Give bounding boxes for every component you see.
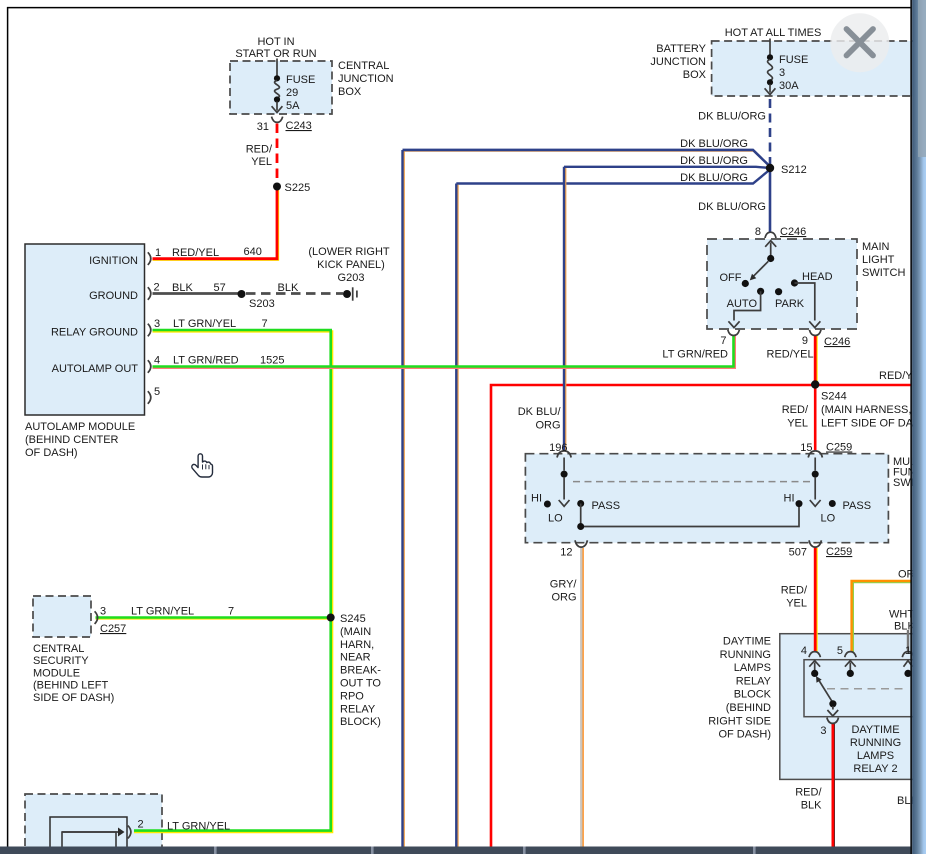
svg-text:3: 3 xyxy=(820,725,826,737)
svg-text:3: 3 xyxy=(154,318,160,330)
svg-text:C243: C243 xyxy=(286,120,312,132)
svg-text:RED/: RED/ xyxy=(781,585,808,597)
fuse 29 (central junction box) xyxy=(272,75,283,112)
wire BLK dashed from S203 to G203 xyxy=(246,292,343,295)
main light switch pin 9 connector arc (C246) xyxy=(809,330,821,336)
main light switch internals xyxy=(728,241,820,328)
multifunction switch pin 196 connector arc (C259) xyxy=(557,451,571,458)
svg-text:4: 4 xyxy=(154,355,160,367)
svg-text:PASS: PASS xyxy=(592,500,621,512)
svg-text:KICK PANEL): KICK PANEL) xyxy=(317,259,385,271)
wire DK BLU/ORG horizontal 2 xyxy=(564,167,770,451)
svg-text:AUTOLAMP MODULE: AUTOLAMP MODULE xyxy=(25,421,135,433)
svg-text:5A: 5A xyxy=(286,100,300,112)
wire GRY/ORG from multifunction switch pin 12 xyxy=(580,547,582,847)
svg-text:(MAIN: (MAIN xyxy=(340,626,371,638)
svg-text:4: 4 xyxy=(801,645,807,657)
svg-text:BATTERY: BATTERY xyxy=(656,43,706,55)
svg-text:AUTOLAMP OUT: AUTOLAMP OUT xyxy=(52,363,139,375)
svg-text:DK BLU/ORG: DK BLU/ORG xyxy=(698,201,766,213)
bottom toolbar xyxy=(0,847,912,854)
svg-text:ORG: ORG xyxy=(535,420,560,432)
svg-text:GRY/: GRY/ xyxy=(550,579,578,591)
svg-text:PASS: PASS xyxy=(843,500,872,512)
svg-text:RED/YEL: RED/YEL xyxy=(767,349,814,361)
central junction box (fuse box, dashed) xyxy=(230,61,332,114)
svg-text:507: 507 xyxy=(789,547,807,559)
svg-text:CENTRAL: CENTRAL xyxy=(33,643,84,655)
svg-text:MODULE: MODULE xyxy=(33,667,80,679)
daytime running lamps relay 2 (inner box) xyxy=(804,660,920,717)
connector C243 socket arc (pin 31) xyxy=(272,117,283,123)
svg-text:196: 196 xyxy=(549,442,567,454)
svg-text:RED/: RED/ xyxy=(795,787,822,799)
wire LT GRN/YEL branch from central security module pin 3 xyxy=(96,616,331,619)
wire DK BLU/ORG vertical 3 (x=456.3) tracer xyxy=(457,185,459,847)
svg-text:1: 1 xyxy=(155,247,161,259)
scrollbar track xyxy=(912,0,926,854)
svg-text:7: 7 xyxy=(228,606,234,618)
splice S212 xyxy=(766,164,774,172)
svg-text:OF DASH): OF DASH) xyxy=(718,729,771,741)
svg-text:OFF: OFF xyxy=(720,272,742,284)
wire RED/YEL from S225 to autolamp module pin 1 xyxy=(153,187,278,259)
fuse 3 (battery junction box) xyxy=(765,54,776,94)
wire RED/YEL from pin 507 to relay pin 4 (tracer) xyxy=(815,548,817,652)
svg-text:DK BLU/ORG: DK BLU/ORG xyxy=(680,172,748,184)
svg-text:C257: C257 xyxy=(100,623,126,635)
svg-text:CENTRAL: CENTRAL xyxy=(338,60,389,72)
wire WHT/BLK stub into relay right pin xyxy=(907,630,909,652)
svg-text:NEAR: NEAR xyxy=(340,652,371,664)
svg-text:PARK: PARK xyxy=(775,298,805,310)
svg-text:OF DASH): OF DASH) xyxy=(25,447,78,459)
svg-text:(BEHIND: (BEHIND xyxy=(726,702,771,714)
relay pin 5 connector arc xyxy=(845,652,856,658)
frame border right xyxy=(910,0,912,854)
svg-text:RELAY: RELAY xyxy=(736,675,772,687)
svg-text:RPO: RPO xyxy=(340,690,364,702)
svg-text:RED/: RED/ xyxy=(246,144,273,156)
autolamp module box xyxy=(25,244,145,415)
bottom-left module box (dashed, cut off) xyxy=(25,794,162,854)
svg-text:(MAIN HARNESS,: (MAIN HARNESS, xyxy=(821,404,911,416)
multifunction switch box (dashed) xyxy=(525,454,888,543)
wire RED/YEL from S244 down to multifunction switch pin 15 xyxy=(814,385,817,451)
svg-text:IGNITION: IGNITION xyxy=(89,255,138,267)
svg-text:YEL: YEL xyxy=(786,598,807,610)
svg-text:3: 3 xyxy=(779,67,785,79)
wire DK BLU/ORG dashed from battery junction box fuse to S212 xyxy=(769,99,772,164)
frame border left xyxy=(7,7,9,847)
ground G203 xyxy=(343,287,357,300)
svg-text:BLOCK): BLOCK) xyxy=(340,716,381,728)
daytime running lamps relay 2 internals xyxy=(809,661,912,716)
wire lead into battery junction box xyxy=(769,39,771,56)
multifunction switch pin 15 connector arc (C259) xyxy=(808,451,822,458)
svg-text:LAMPS: LAMPS xyxy=(857,750,894,762)
wire LT GRN/YEL net: pin3 - S245 - bottom box pin 2 (tracer) xyxy=(134,331,332,832)
svg-text:LO: LO xyxy=(548,513,563,525)
svg-text:BLK: BLK xyxy=(172,282,193,294)
svg-text:DK BLU/ORG: DK BLU/ORG xyxy=(680,138,748,150)
svg-text:JUNCTION: JUNCTION xyxy=(650,56,706,68)
wire LT GRN/RED from autolamp out pin 4 to main light switch pin 7 (tracer) xyxy=(153,335,735,368)
wire DK BLU/ORG horizontal 2 (x=564 down to pin 196) tracer xyxy=(564,168,566,450)
svg-text:DAYTIME: DAYTIME xyxy=(723,636,771,648)
svg-text:7: 7 xyxy=(262,318,268,330)
svg-text:SECURITY: SECURITY xyxy=(33,655,89,667)
svg-text:C246: C246 xyxy=(824,336,850,348)
splice S245 xyxy=(327,614,335,622)
main light switch pin 8 connector arc (C246) xyxy=(765,232,776,238)
svg-text:RELAY 2: RELAY 2 xyxy=(853,763,897,775)
svg-text:C246: C246 xyxy=(780,226,806,238)
svg-text:HEAD: HEAD xyxy=(802,271,833,283)
svg-text:LEFT SIDE OF DASH): LEFT SIDE OF DASH) xyxy=(821,418,926,430)
svg-text:OUT TO: OUT TO xyxy=(340,678,381,690)
svg-text:31: 31 xyxy=(257,121,269,133)
autolamp module pin 2 socket xyxy=(148,287,151,300)
scrollbar thumb xyxy=(918,0,926,157)
svg-text:DK BLU/ORG: DK BLU/ORG xyxy=(698,111,766,123)
svg-text:BOX: BOX xyxy=(338,86,362,98)
wire LT GRN/YEL branch from central security module pin 3 (tracer) xyxy=(96,618,331,620)
wire DK BLU/ORG horizontal 3 xyxy=(456,170,770,848)
svg-text:8: 8 xyxy=(755,226,761,238)
svg-text:HOT AT ALL TIMES: HOT AT ALL TIMES xyxy=(725,27,822,39)
central security module box (dashed) xyxy=(33,596,91,637)
svg-text:(BEHIND CENTER: (BEHIND CENTER xyxy=(25,434,119,446)
svg-text:HI: HI xyxy=(531,493,542,505)
svg-text:LT GRN/YEL: LT GRN/YEL xyxy=(173,318,236,330)
svg-text:LT GRN/RED: LT GRN/RED xyxy=(662,349,728,361)
svg-text:BLK: BLK xyxy=(278,282,299,294)
svg-text:57: 57 xyxy=(214,282,226,294)
splice S244 xyxy=(811,380,819,388)
svg-text:GROUND: GROUND xyxy=(89,290,138,302)
wire DK BLU/ORG vertical 1 xyxy=(403,150,771,847)
svg-text:9: 9 xyxy=(802,335,808,347)
svg-text:LIGHT: LIGHT xyxy=(862,254,895,266)
wire RED/YEL from pin 507 to relay pin 4 xyxy=(814,547,817,652)
svg-text:RELAY: RELAY xyxy=(340,703,376,715)
svg-text:2: 2 xyxy=(154,282,160,294)
multifunction switch pin 12 connector arc xyxy=(575,540,587,547)
wire RED/YEL from main light switch pin 9 to S244 (tracer) xyxy=(815,335,817,384)
svg-text:S212: S212 xyxy=(781,164,807,176)
svg-text:S245: S245 xyxy=(340,613,366,625)
splice S203 xyxy=(238,290,246,298)
svg-text:LAMPS: LAMPS xyxy=(734,662,771,674)
relay internal dashed linkage xyxy=(827,688,908,690)
svg-text:S203: S203 xyxy=(249,298,275,310)
wire GRY/ORG from multifunction switch pin 12 (tracer) xyxy=(582,548,584,847)
wire BLK from autolamp module pin 2 to S203 xyxy=(153,292,240,295)
wire RED/BLK from relay pin 3 down xyxy=(832,724,835,847)
splice S225 xyxy=(273,183,281,191)
autolamp module pin 4 socket xyxy=(148,360,151,373)
bottom-left inner-inner rectangle xyxy=(62,832,116,854)
svg-text:ORG: ORG xyxy=(551,592,576,604)
svg-text:RUNNING: RUNNING xyxy=(720,649,771,661)
svg-text:7: 7 xyxy=(720,335,726,347)
svg-text:1525: 1525 xyxy=(260,355,284,367)
multifunction switch pin 507 connector arc (C259) xyxy=(809,540,821,547)
multifunction switch internals left xyxy=(544,458,803,531)
svg-text:DK BLU/: DK BLU/ xyxy=(518,406,562,418)
battery junction box (dashed, cut at right) xyxy=(712,41,915,96)
svg-text:LT GRN/YEL: LT GRN/YEL xyxy=(131,606,194,618)
wire lead into central junction box xyxy=(276,59,278,77)
svg-text:YEL: YEL xyxy=(251,156,272,168)
svg-text:START OR RUN: START OR RUN xyxy=(235,48,316,60)
svg-text:BREAK-: BREAK- xyxy=(340,665,381,677)
svg-text:29: 29 xyxy=(286,87,298,99)
svg-text:LT GRN/YEL: LT GRN/YEL xyxy=(167,821,230,833)
svg-text:S225: S225 xyxy=(285,182,311,194)
svg-text:FUSE: FUSE xyxy=(779,54,808,66)
svg-text:30A: 30A xyxy=(779,80,799,92)
autolamp module pin 1 socket xyxy=(148,252,151,265)
wire RED/BLK from relay pin 3 down (tracer) xyxy=(833,724,835,847)
svg-text:MAIN: MAIN xyxy=(862,241,890,253)
wire RED/YEL from main light switch pin 9 to S244 xyxy=(814,335,817,384)
wire RED/YEL from S225 to autolamp module pin 1 (tracer) xyxy=(153,190,279,260)
svg-text:5: 5 xyxy=(154,386,160,398)
main light switch box (dashed) xyxy=(707,239,857,329)
central security module pin 3 socket (C257) xyxy=(95,611,98,624)
autolamp module pin 3 socket xyxy=(148,324,151,337)
bottom-left inner rectangle xyxy=(50,817,127,854)
daytime running lamps relay block (outer box) xyxy=(780,634,918,780)
multifunction switch internal dashed linkage xyxy=(573,481,812,483)
svg-text:JUNCTION: JUNCTION xyxy=(338,73,394,85)
svg-text:3: 3 xyxy=(100,606,106,618)
svg-text:C259: C259 xyxy=(826,546,852,558)
svg-text:RED/YEL: RED/YEL xyxy=(172,247,219,259)
svg-text:5: 5 xyxy=(837,645,843,657)
main light switch pin 7 connector arc xyxy=(728,330,740,336)
svg-text:G203: G203 xyxy=(338,272,365,284)
svg-text:RUNNING: RUNNING xyxy=(850,737,901,749)
svg-text:RELAY GROUND: RELAY GROUND xyxy=(51,327,138,339)
svg-text:DK BLU/ORG: DK BLU/ORG xyxy=(680,155,748,167)
wire DK BLU/ORG from S212 to main light switch pin 8 xyxy=(769,168,772,233)
svg-text:BLOCK: BLOCK xyxy=(734,689,772,701)
wire LT GRN/RED from autolamp out pin 4 to main light switch pin 7 xyxy=(153,335,734,367)
svg-text:HOT IN: HOT IN xyxy=(257,36,294,48)
svg-text:LO: LO xyxy=(821,513,836,525)
svg-text:HARN,: HARN, xyxy=(340,639,374,651)
svg-text:(BEHIND LEFT: (BEHIND LEFT xyxy=(33,680,108,692)
close button xyxy=(830,13,889,72)
svg-text:BOX: BOX xyxy=(683,69,707,81)
wire ORG/LT GRN from right edge into relay pin 5 xyxy=(852,581,911,652)
wire DK BLU/ORG vertical 1 (x=402.5) tracer xyxy=(403,151,405,847)
relay pin 3 connector arc xyxy=(827,718,839,724)
mouse cursor (hand pointer) xyxy=(192,454,213,477)
svg-text:BLK: BLK xyxy=(801,800,822,812)
frame border top xyxy=(7,7,911,9)
bottom-left box pin 2 socket xyxy=(128,826,131,839)
svg-text:RIGHT SIDE: RIGHT SIDE xyxy=(708,715,771,727)
wire DK BLU/ORG horizontal 1 tracer xyxy=(404,151,769,166)
relay right pin connector arc (cut by edge) xyxy=(902,652,913,658)
svg-text:1: 1 xyxy=(905,645,911,657)
svg-text:S244: S244 xyxy=(821,391,847,403)
svg-text:AUTO: AUTO xyxy=(727,298,758,310)
autolamp module pin 5 socket xyxy=(148,391,151,404)
svg-text:DAYTIME: DAYTIME xyxy=(851,724,899,736)
svg-text:12: 12 xyxy=(560,547,572,559)
svg-text:15: 15 xyxy=(800,442,812,454)
multifunction switch internals right xyxy=(810,458,836,508)
svg-text:2: 2 xyxy=(138,819,144,831)
bottom-left box arrow xyxy=(62,828,125,837)
wire DK BLU/ORG horizontal 1 xyxy=(403,150,771,167)
svg-text:SIDE OF DASH): SIDE OF DASH) xyxy=(33,692,114,704)
svg-text:(LOWER RIGHT: (LOWER RIGHT xyxy=(308,246,390,258)
wire RED/YEL long horizontal at y=385 and vertical at x=491 xyxy=(491,385,911,847)
svg-text:SWITCH: SWITCH xyxy=(862,267,905,279)
svg-text:640: 640 xyxy=(244,246,262,258)
svg-text:LT GRN/RED: LT GRN/RED xyxy=(173,355,239,367)
wire LT GRN/YEL net main xyxy=(134,330,331,831)
svg-text:FUSE: FUSE xyxy=(286,74,315,86)
relay pin 4 connector arc xyxy=(809,652,820,658)
wire RED/YEL dashed from C243 to S225 xyxy=(276,124,279,184)
svg-text:YEL: YEL xyxy=(787,418,808,430)
svg-text:HI: HI xyxy=(784,493,795,505)
wire ORG/LT GRN from right edge into relay pin 5 (tracer) xyxy=(853,582,911,652)
svg-text:RED/: RED/ xyxy=(782,404,809,416)
svg-text:C259: C259 xyxy=(826,442,852,454)
